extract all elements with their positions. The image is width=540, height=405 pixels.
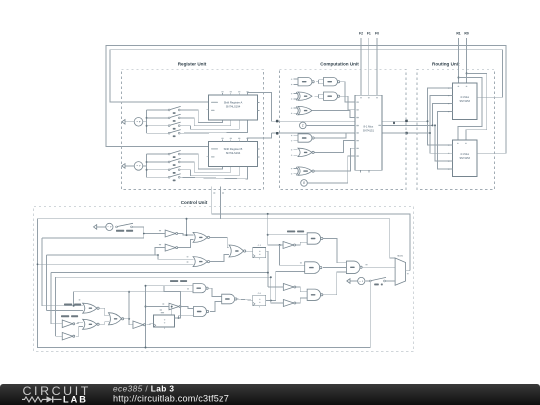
wire N19 to N17 xyxy=(76,326,83,336)
wire exec to N6 xyxy=(146,285,194,287)
wire rail to switch S2b xyxy=(147,161,169,163)
wire bus v3 xyxy=(50,273,52,324)
wire feedback into N16 in1 xyxy=(73,292,75,307)
wire switch S1a to register pin xyxy=(180,120,239,129)
load label xyxy=(374,284,383,286)
wire bus to N19 xyxy=(56,335,63,337)
node BT1 label xyxy=(161,312,164,313)
nand gate G2 xyxy=(324,78,340,86)
wire S1 register unit to control unit xyxy=(211,187,213,214)
node label n8b xyxy=(160,309,163,310)
wire N21 to BT1 xyxy=(147,323,154,326)
wire left loop xyxy=(38,219,372,348)
execute switch net label 5 xyxy=(61,315,78,317)
wire switch S0b to register pin xyxy=(180,167,247,179)
wire bus F branch up to mux A xyxy=(433,104,453,126)
node label n4b xyxy=(187,261,189,262)
junction dots switch bus B xyxy=(146,161,148,171)
flip-flop C.0 xyxy=(253,293,266,307)
wire source V1 to switch bus xyxy=(143,121,147,123)
wire N10 to N13 xyxy=(323,239,347,263)
node label f2a xyxy=(300,262,302,263)
switch S0b xyxy=(168,174,180,182)
wire switch S1b to register pin xyxy=(180,167,239,176)
inverter N8 xyxy=(169,303,181,310)
inverter N15 xyxy=(283,300,296,307)
wire exec vertical branch xyxy=(145,285,147,349)
wire bus v1 xyxy=(41,238,43,306)
flip-flop BT1 xyxy=(154,315,175,329)
junction R1 branch xyxy=(458,77,460,79)
wire G2 to mux pin1 xyxy=(340,82,353,102)
junction bus A xyxy=(427,120,429,122)
inverter N12 xyxy=(283,284,296,291)
xnor gate G8 xyxy=(296,167,314,175)
wire to N11 in1 xyxy=(280,245,305,265)
control unit dashed box xyxy=(34,207,414,352)
nor gate N16 xyxy=(83,303,100,313)
voltage source V3 Execute Switch xyxy=(94,223,114,230)
execute switch net label 4 xyxy=(64,304,81,306)
wire to N8 input xyxy=(146,306,170,308)
wire switch S3a to register pin xyxy=(180,110,222,123)
nor gate N17 xyxy=(83,319,100,329)
wire feedback bus to Register B serial input (outer loop) xyxy=(106,46,506,154)
wire N14 to N13 xyxy=(323,272,347,295)
wire bus B xyxy=(272,132,431,134)
junction bus B xyxy=(429,132,431,134)
wire exec to N10 in1 xyxy=(268,234,307,236)
wire feedback bus to Register A serial input (inner loop) xyxy=(110,50,503,102)
routing unit label xyxy=(432,61,460,66)
wire N13 to MUX1 xyxy=(362,266,395,268)
nor gate N4 xyxy=(193,257,209,267)
node R0 input wire xyxy=(464,32,468,84)
mux MUX1 2:1 xyxy=(395,256,410,286)
shift register A SN74LS194 (U1) xyxy=(209,91,260,120)
inverter N2 xyxy=(165,244,178,251)
constant 1 source xyxy=(300,122,307,129)
wire switch S2a to register pin xyxy=(180,118,231,126)
nor gate N3 xyxy=(193,232,209,242)
nand gate G1 inputs xyxy=(291,79,297,86)
nand gate N10 xyxy=(307,233,323,244)
voltage source V1 (switch bank A) xyxy=(122,118,143,127)
nor gate N20 xyxy=(109,313,124,325)
node label q xyxy=(187,288,189,289)
wire rail to switch S0b xyxy=(147,176,169,178)
wire N16 to N20 xyxy=(100,308,109,316)
node label n4a xyxy=(187,256,189,257)
wire N8 to N8b xyxy=(181,307,193,309)
wire register B output to bus B xyxy=(248,133,272,142)
wire to N9 input xyxy=(268,244,283,246)
wire to N4 in1 xyxy=(157,254,193,259)
svg-text:ece385 / Lab 3: ece385 / Lab 3 xyxy=(113,384,174,394)
wire S0 horizontal run xyxy=(220,219,395,258)
wire N5 to C1 xyxy=(245,250,253,252)
node label n8a xyxy=(162,303,164,304)
wire switch S2b to register pin xyxy=(180,162,231,172)
computation unit label xyxy=(320,61,359,66)
wire h 238 xyxy=(42,237,144,239)
switch S2a xyxy=(168,114,180,121)
mux U3 8-1 Mux SN74151 xyxy=(353,93,385,173)
nand gate N8b xyxy=(194,307,209,317)
wire bus to N4 in2 xyxy=(37,263,194,265)
xnor gate G8 inputs xyxy=(291,168,297,175)
wire rail to switch S1a xyxy=(147,125,169,127)
wire bus to N2 xyxy=(155,248,165,255)
wire bus F branch down to mux B xyxy=(435,125,453,161)
wire G6 to mux pin5 xyxy=(314,133,352,138)
wire S0 register unit to control unit xyxy=(219,187,221,219)
switch SW load xyxy=(369,277,386,282)
wire switch S0a to register pin xyxy=(180,120,247,133)
wire S1 branch right xyxy=(267,213,269,245)
switch S3a xyxy=(168,106,180,113)
voltage source V4 Load xyxy=(347,277,370,284)
node Q1 label xyxy=(159,230,161,231)
wire R1 to mux B select xyxy=(458,78,482,141)
junction bus F down xyxy=(434,124,436,126)
wire switch bus vertical B xyxy=(146,154,148,177)
wire source V2 to switch bus xyxy=(143,165,147,167)
wire const1 to mux pin4 xyxy=(306,124,352,126)
execute switch net label 2 xyxy=(170,280,187,282)
svg-text:LAB: LAB xyxy=(63,395,88,405)
wire h 255 xyxy=(47,254,159,256)
wire S1 branch to N3 xyxy=(186,218,188,236)
inverter N9 xyxy=(283,242,296,249)
wire rail to switch S3b xyxy=(147,153,169,155)
node label h1 xyxy=(79,299,81,300)
wire N18 to N17 xyxy=(76,322,83,324)
nand gate N13 (3-input) xyxy=(346,261,362,274)
nand gate G4 xyxy=(324,92,340,100)
mux U5 4:1 Mux SN74153 (lower) xyxy=(448,140,479,176)
wire rail to switch S2a xyxy=(147,117,169,119)
wire C0 Q out xyxy=(266,271,305,301)
wire N17 to N20 xyxy=(100,322,109,325)
node B label (left) xyxy=(276,132,278,135)
wire N15 to N14 xyxy=(296,298,307,303)
wire execute switch to bus xyxy=(132,227,143,238)
wire bus to N16 in1 xyxy=(42,305,83,307)
wire bus A xyxy=(272,120,428,122)
shift register B SN74LS194 (U2) xyxy=(209,138,260,167)
nand gate N7 xyxy=(222,294,237,304)
xor gate G5 xyxy=(296,106,312,114)
wire N3 to N5 xyxy=(209,237,229,247)
execute switch net label 3 xyxy=(287,231,304,233)
wire BT1 Q to N8b in2 xyxy=(178,316,194,319)
wire mux pin4 tie xyxy=(438,112,453,170)
wire G8 to mux pin7 xyxy=(314,148,352,171)
wire G3 to G4 xyxy=(314,94,323,98)
node F label xyxy=(393,122,395,124)
wire bus B branch to muxes xyxy=(430,96,453,154)
node F2 input wire xyxy=(359,32,363,93)
wire N11 to N13 xyxy=(323,267,347,269)
wire C1 Q out xyxy=(266,251,269,287)
register A clock pin stub xyxy=(207,109,209,111)
wire register A output to bus A xyxy=(248,93,272,122)
wire bus v2 xyxy=(46,255,48,310)
wire N4 to N5 xyxy=(209,254,229,261)
wire C0 to h277 xyxy=(270,276,284,303)
routing unit dashed box xyxy=(417,69,495,189)
node S1 label xyxy=(213,192,215,193)
computation unit dashed box xyxy=(280,69,407,189)
mux U4 4:1 Mux SN74153 (upper) xyxy=(448,83,479,119)
wire bus to N18 xyxy=(51,323,62,325)
wire to N6 in2 xyxy=(164,286,193,292)
wire G1 to G2 xyxy=(316,80,323,84)
wire switch bus vertical A xyxy=(146,110,148,133)
wire rail to switch S0a xyxy=(147,132,169,134)
node A label (left) xyxy=(276,120,279,123)
node S0 label xyxy=(222,192,224,193)
node F8 label xyxy=(365,264,367,265)
wire N9 to N10 xyxy=(296,242,307,245)
nand gate G1 xyxy=(298,78,314,86)
inverter N18 xyxy=(62,320,75,328)
switch S2b xyxy=(168,158,180,166)
nand gate N14 xyxy=(307,289,323,300)
junction bus F up xyxy=(432,124,434,126)
junction dots switch bus A xyxy=(146,117,148,127)
xor gate G5 inputs xyxy=(291,108,297,115)
nand gate G6 xyxy=(298,134,314,142)
wire N7 to C0 xyxy=(237,299,253,300)
wire BT1 feedback xyxy=(74,292,181,318)
inverter N19 xyxy=(62,332,75,340)
wire G5 to mux pin3 xyxy=(312,111,352,118)
node F0 input wire xyxy=(375,32,379,93)
nand gate N6 xyxy=(193,284,208,293)
wire h 277 xyxy=(56,276,271,278)
nor gate N5 xyxy=(229,245,246,257)
switch S0a xyxy=(168,130,180,137)
wire const0 to mux pin8 xyxy=(307,156,352,183)
constant 0 source xyxy=(301,180,308,187)
node F1 input wire xyxy=(367,32,371,93)
nand gate N11 xyxy=(305,262,322,274)
register unit dashed box xyxy=(122,69,264,189)
wire N6 to N7 xyxy=(208,288,222,296)
register B clock pin stub xyxy=(207,155,209,157)
nor gate G7 xyxy=(298,148,314,156)
wire G7 to mux pin6 xyxy=(314,141,352,153)
wire switch S3b to register pin xyxy=(180,154,222,169)
wire S1 horizontal run xyxy=(212,214,410,271)
wire rail to switch S1b xyxy=(147,169,169,171)
wire exec to N1 xyxy=(143,233,165,235)
wire feedback branch to N20 out xyxy=(128,291,130,319)
switch S1a xyxy=(168,122,180,130)
nand gate G6 inputs xyxy=(291,135,297,142)
wire R0 to mux B select xyxy=(466,73,487,140)
switch S1b xyxy=(168,166,180,174)
node R1 input wire xyxy=(456,32,460,84)
inverter N1 xyxy=(165,230,178,237)
switch S3b xyxy=(168,151,180,159)
wire rail to switch S3a xyxy=(147,109,169,111)
wire G4 to mux pin2 xyxy=(340,96,353,110)
voltage source V2 (switch bank B) xyxy=(122,162,143,171)
CircuitLab logo: resistor + diode symbol xyxy=(22,396,62,402)
junction R0 branch xyxy=(466,72,468,74)
xor gate G3 xyxy=(296,92,312,100)
wire to N16 in2 xyxy=(47,309,83,311)
wire N2 to N3 in2 xyxy=(178,240,194,248)
execute switch label xyxy=(116,230,133,232)
switch SW execute xyxy=(116,223,133,228)
svg-text:http://circuitlab.com/c3tf5z7: http://circuitlab.com/c3tf5z7 xyxy=(113,393,229,403)
nor gate G7 inputs xyxy=(291,149,297,156)
wire N12 to N14 xyxy=(296,287,307,292)
wire load switch to MUX1 xyxy=(385,280,395,282)
node Q0 label xyxy=(159,244,161,245)
flip-flop C.1 xyxy=(253,245,266,259)
node B label (right) xyxy=(405,132,407,135)
wire h 272 xyxy=(51,272,268,274)
wire to N12 input xyxy=(268,286,283,288)
wire bus v4 xyxy=(55,277,57,336)
register unit label xyxy=(178,61,207,66)
wire mux output F xyxy=(384,124,433,126)
node A label (right) xyxy=(405,120,408,123)
wire bus A branch to muxes xyxy=(428,88,453,145)
wire N20 to N21 xyxy=(122,318,133,325)
wire N8b to N7 xyxy=(210,302,222,312)
control unit label xyxy=(181,200,208,205)
wire N8 branch to BT1 xyxy=(171,306,173,315)
inverter N21 xyxy=(133,321,146,329)
wire N1 to N3 xyxy=(178,234,194,236)
xor gate G3 inputs xyxy=(291,93,297,100)
